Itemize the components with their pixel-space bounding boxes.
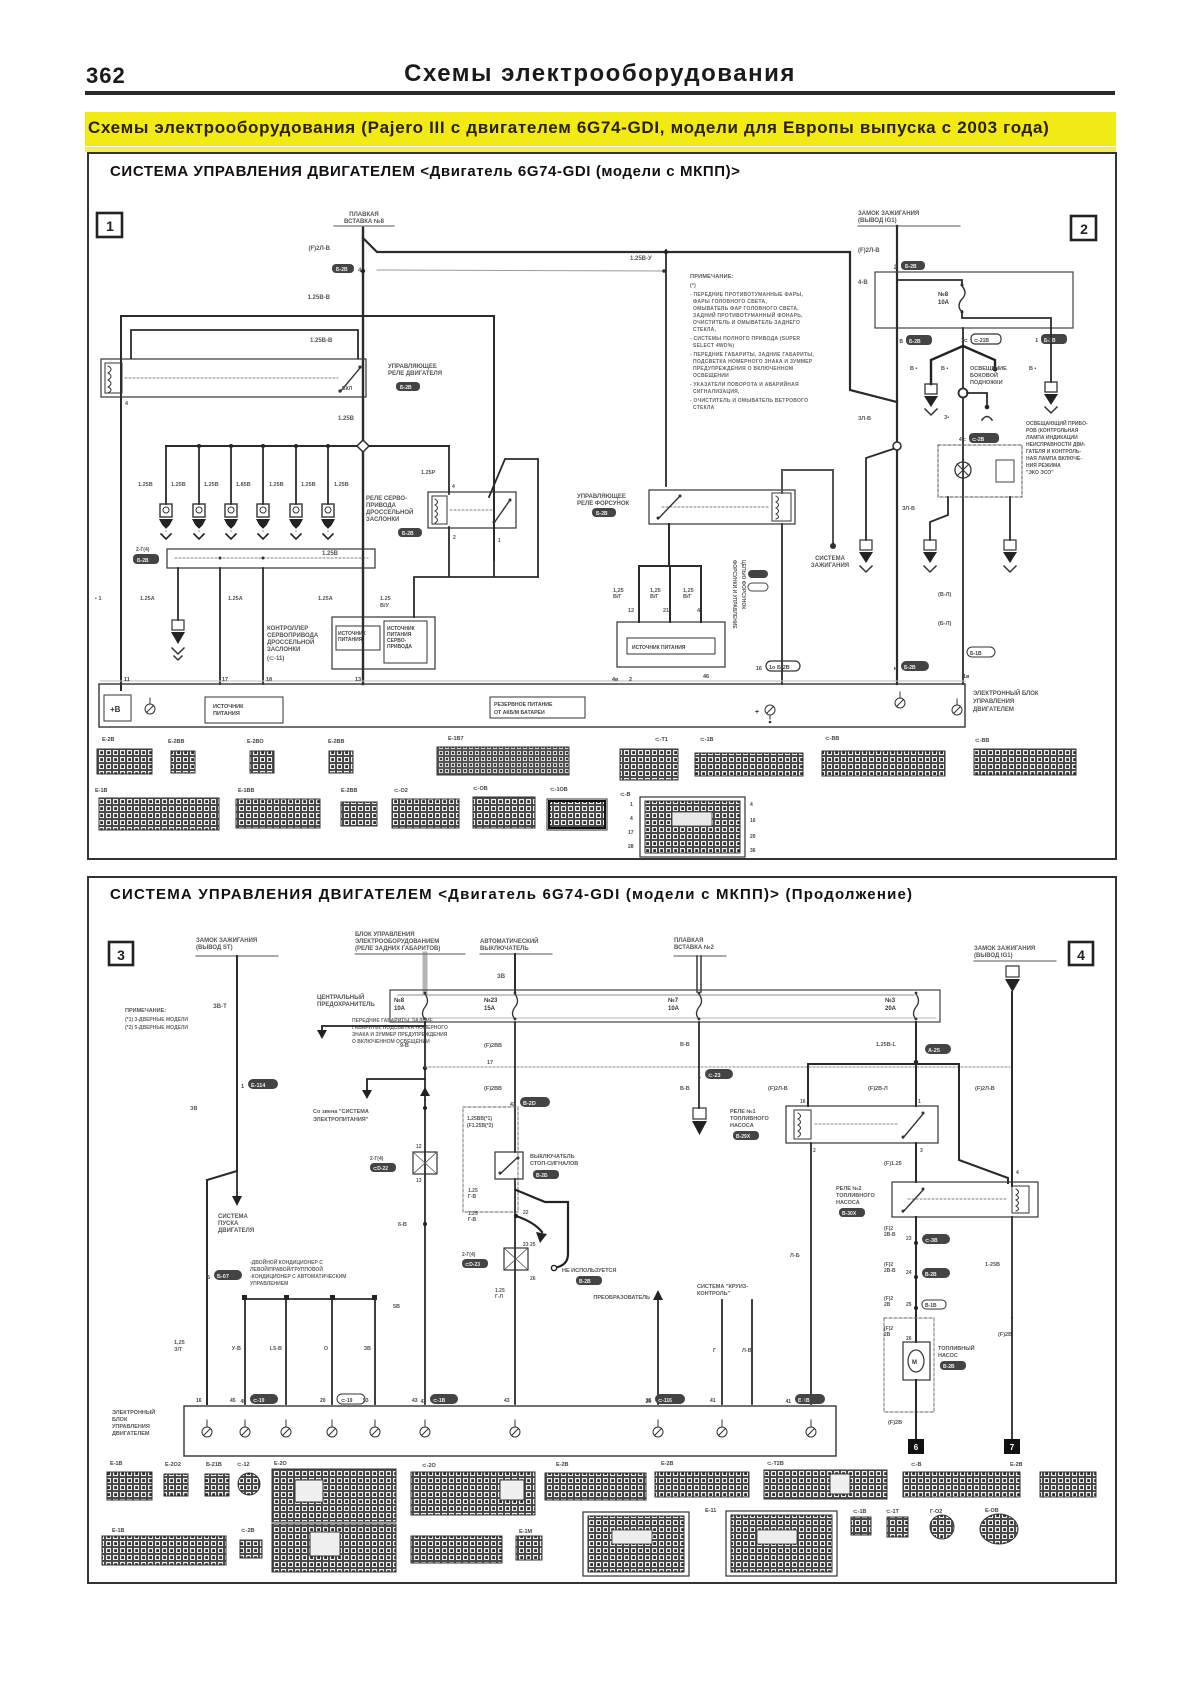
svg-text:3: 3: [920, 1148, 923, 1154]
svg-text:ВСТАВКА №8: ВСТАВКА №8: [344, 218, 385, 225]
svg-text:10А: 10А: [668, 1006, 680, 1012]
svg-text:Е-2ВВ: Е-2ВВ: [341, 788, 358, 794]
svg-text:ЭЛЕКТРОННЫЙ: ЭЛЕКТРОННЫЙ: [112, 1408, 155, 1416]
wire: servo feed into controller: [414, 527, 538, 617]
svg-text:1.25В-В: 1.25В-В: [308, 295, 331, 301]
fuse No.23 15A: [484, 992, 518, 1021]
svg-text:ПОДНОЖКИ: ПОДНОЖКИ: [970, 380, 1003, 386]
svg-text:№3: №3: [885, 997, 896, 1004]
branch arrow 2 from fuse8 drop: [362, 1079, 425, 1099]
throttle servo relay label: [366, 496, 413, 523]
svg-text:1.25В-В: 1.25В-В: [310, 338, 333, 344]
ECM pin numbers: [124, 674, 970, 683]
svg-text:17: 17: [487, 1060, 493, 1066]
svg-text:1о Б-2В: 1о Б-2В: [769, 665, 790, 671]
svg-text:- ПЕРЕДНИЕ ПРОТИВОТУМАННЫЕ ФАР: - ПЕРЕДНИЕ ПРОТИВОТУМАННЫЕ ФАРЫ,: [690, 292, 803, 298]
big ECM connector C-118: [628, 797, 756, 857]
svg-text:4: 4: [1016, 1170, 1019, 1176]
svg-text:ПОДСВЕТКА НОМЕРНОГО ЗНАКА И ЗУ: ПОДСВЕТКА НОМЕРНОГО ЗНАКА И ЗУММЕР: [693, 359, 813, 365]
wire: branch to coil ground: [866, 449, 893, 540]
svg-text:Б-2В: Б-2В: [905, 264, 917, 270]
junction dots on fuse8 branch: [423, 1106, 427, 1226]
connector oval under servo relay label: [398, 528, 422, 537]
svg-text:1: 1: [106, 218, 114, 234]
wire label 1.25 3/T: [174, 1340, 185, 1353]
header rule: [85, 91, 1115, 95]
injector control relay label: [577, 494, 630, 507]
svg-text:ГАТЕЛЯ И КОНТРОЛЬ-: ГАТЕЛЯ И КОНТРОЛЬ-: [1026, 449, 1081, 455]
svg-text:Б-2В: Б-2В: [904, 665, 916, 671]
central fuse box label: [317, 993, 375, 1008]
svg-text:46: 46: [703, 674, 709, 680]
svg-text:⊂-О2: ⊂-О2: [394, 788, 408, 794]
fuel pump: [903, 1342, 930, 1380]
ECM pin numbers top: [196, 1398, 806, 1404]
svg-text:Е-2ВО: Е-2ВО: [247, 739, 264, 745]
svg-text:⊂-Т2В: ⊂-Т2В: [767, 1461, 784, 1467]
svg-text:2-Г(4): 2-Г(4): [370, 1156, 384, 1162]
svg-text:⊂-ЗВ: ⊂-ЗВ: [925, 1238, 938, 1244]
svg-text:1-25В: 1-25В: [985, 1262, 1000, 1268]
svg-text:ЗНАКА И ЗУММЕР ПРЕДУПРЕЖДЕНИЯ: ЗНАКА И ЗУММЕР ПРЕДУПРЕЖДЕНИЯ: [352, 1032, 448, 1038]
wire: inner bridge over engine relay: [131, 330, 358, 358]
svg-text:1.25В: 1.25В: [338, 416, 355, 422]
svg-text:(F)2В: (F)2В: [888, 1420, 902, 1426]
svg-text:ФАРЫ ГОЛОВНОГО СВЕТА,: ФАРЫ ГОЛОВНОГО СВЕТА,: [693, 299, 767, 305]
svg-text:6-В: 6-В: [398, 1222, 407, 1228]
wire: fuse8 branch continues to ECM: [424, 1100, 426, 1404]
svg-text:20: 20: [750, 834, 756, 840]
svg-text:М: М: [912, 1360, 917, 1366]
svg-text:ЭЛЕКТРОПИТАНИЯ": ЭЛЕКТРОПИТАНИЯ": [313, 1117, 369, 1123]
svg-text:ЗВ: ЗВ: [497, 974, 506, 980]
svg-text:⊂-23: ⊂-23: [708, 1073, 721, 1079]
svg-text:Е-2ВВ: Е-2ВВ: [168, 739, 185, 745]
svg-text:Е-2О: Е-2О: [274, 1461, 288, 1467]
svg-text:Е-1В7: Е-1В7: [448, 736, 464, 742]
svg-text:В-1В: В-1В: [925, 1303, 937, 1309]
svg-text:ДРОССЕЛЬНОЙ: ДРОССЕЛЬНОЙ: [366, 508, 413, 516]
svg-text:ЦЕНТРАЛЬНЫЙ: ЦЕНТРАЛЬНЫЙ: [317, 993, 364, 1001]
svg-text:№8: №8: [394, 997, 405, 1004]
svg-text:В/У: В/У: [380, 603, 390, 609]
injector ground bus: [166, 445, 449, 447]
svg-text:2-Г(4): 2-Г(4): [136, 547, 150, 553]
connector oval B-20: [510, 1097, 550, 1108]
svg-text:25: 25: [530, 1242, 536, 1248]
svg-text:"ЭКО ЭСО": "ЭКО ЭСО": [1026, 470, 1054, 476]
svg-text:1.25В: 1.25В: [322, 551, 339, 557]
dotted option line: [425, 1066, 1010, 1068]
svg-text:Б-21В: Б-21В: [206, 1462, 222, 1468]
sheet marker 1: [97, 213, 122, 237]
svg-text:12: 12: [416, 1144, 422, 1150]
svg-text:13: 13: [355, 677, 361, 683]
svg-text:ПРИМЕЧАНИЕ:: ПРИМЕЧАНИЕ:: [125, 1008, 166, 1014]
wire: relay1 coil to ECM: [810, 1143, 812, 1404]
running board lamp label: [970, 366, 1007, 386]
ECM backup power box: [490, 697, 585, 718]
svg-text:ПИТАНИЯ: ПИТАНИЯ: [338, 637, 363, 643]
wire: lamp node branch with open end: [967, 393, 992, 420]
svg-text:23: 23: [906, 1236, 912, 1242]
svg-text:ПРИВОДА: ПРИВОДА: [366, 503, 397, 509]
svg-text:41: 41: [800, 1398, 806, 1404]
injector drop 4: [256, 446, 270, 539]
svg-text:В/Г: В/Г: [650, 594, 660, 600]
svg-text:ОТ АКБ/М БАТАРЕИ: ОТ АКБ/М БАТАРЕИ: [494, 710, 545, 716]
ac signal bus: [242, 1295, 377, 1300]
injector control relay: [649, 490, 795, 524]
svg-text:ЗАСЛОНКИ: ЗАСЛОНКИ: [366, 517, 399, 523]
svg-text:№23: №23: [484, 997, 498, 1004]
svg-text:20: 20: [320, 1398, 326, 1404]
svg-text:16: 16: [800, 1099, 806, 1105]
svg-text:В-В: В-В: [680, 1042, 690, 1048]
svg-text:Е-ОВ: Е-ОВ: [985, 1508, 999, 1514]
fusible link No.2 label: [674, 938, 726, 956]
fuel pump relay 2 label: [836, 1186, 876, 1217]
svg-text:Е-2В: Е-2В: [102, 737, 115, 743]
svg-text:(⊂-11): (⊂-11): [267, 656, 284, 662]
svg-text:СТЕКЛА,: СТЕКЛА,: [693, 327, 717, 333]
wire: pump to ground square 6: [915, 1380, 917, 1439]
ac bus drop 1: [244, 1299, 246, 1404]
svg-text:Б-2В: Б-2В: [596, 511, 608, 517]
wire: main battery feed vertical: [362, 228, 364, 684]
svg-text:1.85В: 1.85В: [236, 482, 251, 488]
engine control relay label: [388, 364, 442, 377]
svg-text:⊂-21В: ⊂-21В: [974, 338, 989, 344]
svg-text:н: н: [894, 666, 897, 672]
svg-text:L5-В: L5-В: [270, 1346, 282, 1352]
connector row 1 blocks d2: [107, 1469, 1096, 1522]
connector oval C-2B under relay label: [396, 382, 420, 391]
svg-text:4: 4: [750, 802, 753, 808]
svg-text:УПРАВЛЕНИЕМ: УПРАВЛЕНИЕМ: [250, 1281, 288, 1287]
svg-text:КОНТРОЛЛЕР: КОНТРОЛЛЕР: [267, 626, 308, 632]
svg-text:СИСТЕМА УПРАВЛЕНИЯ ДВИГАТЕЛЕМ: СИСТЕМА УПРАВЛЕНИЯ ДВИГАТЕЛЕМ <Двигатель…: [110, 886, 913, 903]
svg-text:1: 1: [630, 802, 633, 808]
fuse No.8 10A: [394, 992, 428, 1021]
svg-text:ПРИВОДА: ПРИВОДА: [387, 644, 412, 650]
injectors side label (rotated): [731, 560, 746, 629]
svg-text:БЛОК УПРАВЛЕНИЯ: БЛОК УПРАВЛЕНИЯ: [355, 932, 415, 938]
svg-text:ЗВ: ЗВ: [190, 1106, 197, 1112]
svg-text:ДВИГАТЕЛЕМ: ДВИГАТЕЛЕМ: [112, 1431, 150, 1437]
svg-text:(ВЫВОД IG1): (ВЫВОД IG1): [858, 218, 897, 224]
svg-text:⊂-1В: ⊂-1В: [853, 1509, 866, 1515]
connector oval under injector relay label: [592, 508, 616, 517]
svg-text:В/Г: В/Г: [683, 594, 693, 600]
indicator cluster note text: [1026, 419, 1088, 476]
wire: faint second feed line: [377, 270, 663, 271]
junction circle on lamp wire: [959, 389, 968, 398]
svg-text:У-В: У-В: [232, 1346, 241, 1352]
svg-text:НАСОСА: НАСОСА: [730, 1123, 754, 1129]
not used branch with open end: [516, 1190, 568, 1271]
note block 3dr/5dr: [125, 1008, 188, 1031]
wire label 1.25 G-L: [495, 1288, 505, 1300]
svg-text:45: 45: [230, 1398, 236, 1404]
svg-text:РЕЛЕ СЕРВО-: РЕЛЕ СЕРВО-: [366, 496, 407, 502]
lamp unit dashed box: [938, 445, 1022, 497]
svg-text:1.25В: 1.25В: [334, 482, 349, 488]
stop lamp switch feed: fuse 23 drop: [514, 1022, 516, 1152]
svg-text:(F)2В: (F)2В: [998, 1332, 1012, 1338]
wire: link box drop 2 to ECM: [219, 568, 221, 684]
wire labels on fuse8 drop: [400, 1043, 502, 1092]
svg-text:(F)2Л-В: (F)2Л-В: [308, 246, 330, 252]
svg-text:УПРАВЛЯЮЩЕЕ: УПРАВЛЯЮЩЕЕ: [388, 364, 437, 370]
svg-text:ОЧИСТИТЕЛЬ И ОМЫВАТЕЛЬ ЗАДНЕГО: ОЧИСТИТЕЛЬ И ОМЫВАТЕЛЬ ЗАДНЕГО: [693, 320, 800, 326]
svg-text:18: 18: [266, 677, 272, 683]
svg-text:(*1) 3-ДВЕРНЫЕ МОДЕЛИ: (*1) 3-ДВЕРНЫЕ МОДЕЛИ: [125, 1017, 188, 1023]
throttle controller box: [332, 617, 435, 669]
ground: left running board: [924, 384, 938, 415]
svg-text:Г-О2: Г-О2: [930, 1509, 942, 1515]
svg-text:Е-2В: Е-2В: [556, 1462, 569, 1468]
svg-text:БОКОВОЙ: БОКОВОЙ: [970, 371, 998, 379]
svg-text:Е-2В: Е-2В: [1010, 1462, 1023, 1468]
svg-text:В/Г: В/Г: [613, 594, 623, 600]
svg-text:В: В: [899, 339, 903, 345]
stop lamp switch: [495, 1152, 523, 1179]
fuel pump relay 2: [892, 1182, 1038, 1217]
svg-text:21: 21: [663, 608, 669, 614]
svg-text:(F)2ВВ: (F)2ВВ: [484, 1086, 502, 1092]
wire: relay1 switch to relay2: [915, 1143, 917, 1182]
svg-text:ИСТОЧНИК: ИСТОЧНИК: [213, 704, 244, 710]
svg-text:Б-2В: Б-2В: [137, 558, 149, 564]
svg-text:⊂D-23: ⊂D-23: [465, 1262, 480, 1268]
svg-text:10А: 10А: [938, 300, 950, 306]
throttle servo relay: [428, 492, 516, 528]
svg-text:Е-2О2: Е-2О2: [165, 1462, 181, 1468]
svg-text:(ВЫВОД ST): (ВЫВОД ST): [196, 945, 233, 951]
svg-text:ЗЛ-В: ЗЛ-В: [858, 416, 871, 422]
svg-text:(F)2Л-В: (F)2Л-В: [858, 248, 880, 254]
svg-text:SELECT 4WD%): SELECT 4WD%): [693, 343, 734, 349]
connector oval on starter run: [207, 1270, 242, 1281]
svg-text:ЗАМОК ЗАЖИГАНИЯ: ЗАМОК ЗАЖИГАНИЯ: [196, 938, 257, 944]
svg-text:ЗВ-Т: ЗВ-Т: [213, 1004, 227, 1010]
svg-text:З/Т: З/Т: [174, 1347, 183, 1353]
svg-text:Б-2В: Б-2В: [336, 267, 348, 273]
wire: fuse 8 output down: [424, 1022, 426, 1100]
svg-text:ВСТАВКА №2: ВСТАВКА №2: [674, 944, 715, 951]
throttle controller link box: [167, 549, 375, 568]
svg-text:2-Г(4): 2-Г(4): [462, 1252, 476, 1258]
connector E-28 on main feed: [332, 264, 362, 274]
side oval connectors: [748, 570, 768, 591]
distribution wire labels: [768, 1086, 995, 1092]
svg-text:В ▪: В ▪: [910, 366, 918, 372]
svg-text:В-В: В-В: [680, 1086, 690, 1092]
svg-text:Е-1ВВ: Е-1ВВ: [238, 788, 255, 794]
junction square 6: [908, 1439, 924, 1454]
svg-text:Е-1В: Е-1В: [110, 1461, 123, 1467]
wire: cruise feed 2: [751, 1300, 753, 1404]
svg-text:Л-В: Л-В: [742, 1348, 752, 1354]
option dashed box: [463, 1107, 518, 1212]
connector ovals above ECM right: [894, 647, 995, 672]
svg-text:АВТОМАТИЧЕСКИЙ: АВТОМАТИЧЕСКИЙ: [480, 937, 538, 945]
cruise control label: [697, 1284, 748, 1297]
svg-text:Со звена "СИСТЕМА: Со звена "СИСТЕМА: [313, 1109, 369, 1115]
svg-text:1.25А: 1.25А: [318, 596, 333, 602]
wire: servo relay switch up feed: [489, 459, 538, 577]
sheet marker 2: [1071, 216, 1096, 240]
svg-text:О: О: [324, 1346, 329, 1352]
svg-text:КОНТРОЛЬ": КОНТРОЛЬ": [697, 1291, 731, 1297]
svg-text:ЗАСЛОНКИ: ЗАСЛОНКИ: [267, 647, 300, 653]
svg-text:4⊂: 4⊂: [959, 437, 966, 443]
ac bus drop 4: [374, 1299, 376, 1404]
svg-text:СИГНАЛИЗАЦИЯ,: СИГНАЛИЗАЦИЯ,: [693, 389, 740, 395]
svg-text:16: 16: [196, 1398, 202, 1404]
svg-text:12: 12: [628, 608, 634, 614]
ignition switch ST label: [196, 938, 278, 956]
svg-text:ВЫКЛЮЧАТЕЛЬ: ВЫКЛЮЧАТЕЛЬ: [530, 1154, 575, 1160]
svg-text:⊂-2О: ⊂-2О: [422, 1463, 436, 1469]
svg-text:45: 45: [240, 1399, 246, 1405]
svg-text:ЗАМОК ЗАЖИГАНИЯ: ЗАМОК ЗАЖИГАНИЯ: [858, 211, 919, 217]
wire: fuse 3 output: [915, 1022, 917, 1106]
fuel pump dashed box: [884, 1318, 934, 1412]
ECM label right: [973, 689, 1039, 713]
svg-text:1: 1: [498, 538, 501, 544]
svg-text:ДВИГАТЕЛЕМ: ДВИГАТЕЛЕМ: [973, 707, 1014, 713]
yellow highlight underline strip: [85, 147, 1116, 152]
wire: breaker feed into fuse box: [514, 954, 516, 992]
ac drop labels: [232, 1346, 371, 1352]
ac bus drop 2: [285, 1299, 287, 1404]
svg-text:6: 6: [914, 1443, 919, 1452]
svg-text:14: 14: [272, 1398, 278, 1404]
svg-text:26: 26: [530, 1276, 536, 1282]
fuse 7 drop wire: [698, 1022, 700, 1108]
yellow highlighted subtitle: [85, 112, 1116, 146]
ECM long bar: [100, 680, 965, 682]
resistor marks on pump wire: [884, 1226, 896, 1338]
svg-text:⊂-ВВ: ⊂-ВВ: [825, 736, 839, 742]
ECM power source box: [205, 697, 283, 723]
svg-text:ПИТАНИЯ: ПИТАНИЯ: [213, 711, 240, 717]
connector row 2 labels: [95, 786, 630, 798]
svg-text:ЗАМОК ЗАЖИГАНИЯ: ЗАМОК ЗАЖИГАНИЯ: [974, 946, 1035, 952]
ignition system label: [811, 556, 849, 569]
ac note text: [250, 1258, 346, 1287]
fuel pump relay 1: [786, 1106, 938, 1143]
svg-text:1.25А: 1.25А: [228, 596, 243, 602]
ECM +B cell left: [104, 695, 131, 721]
svg-text:⊂-19: ⊂-19: [253, 1398, 265, 1404]
wire: ignition feed down: [896, 226, 898, 684]
svg-text:СТЕКЛА: СТЕКЛА: [693, 405, 715, 411]
svg-text:⊂-1Т: ⊂-1Т: [886, 1509, 899, 1515]
svg-text:43: 43: [504, 1398, 510, 1404]
svg-text:Г-В: Г-В: [468, 1217, 476, 1223]
svg-text:ОСВЕЩЕНИИ: ОСВЕЩЕНИИ: [693, 373, 729, 379]
power system source note: [313, 1109, 369, 1123]
circuit breaker label: [480, 937, 552, 954]
svg-text:З▪: З▪: [944, 415, 949, 421]
svg-text:РЕЛЕ ДВИГАТЕЛЯ: РЕЛЕ ДВИГАТЕЛЯ: [388, 371, 442, 377]
svg-text:(F)2Л-В: (F)2Л-В: [768, 1086, 788, 1092]
svg-text:В-2В: В-2В: [943, 1364, 955, 1370]
svg-text:⊂-ВВ: ⊂-ВВ: [975, 738, 989, 744]
svg-text:⊂-1В: ⊂-1В: [700, 737, 713, 743]
svg-text:(*): (*): [690, 283, 696, 289]
svg-text:+: +: [755, 709, 759, 716]
connector row 2 blocks d2: [102, 1511, 1018, 1576]
inline joint box D-22: [370, 1144, 437, 1184]
engine start system label: [218, 1214, 254, 1234]
svg-text:В-2D: В-2D: [523, 1101, 536, 1107]
svg-text:ЗАДНИЙ ПРОТИВОТУМАННЫЙ ФОНАРЬ,: ЗАДНИЙ ПРОТИВОТУМАННЫЙ ФОНАРЬ,: [693, 311, 803, 319]
svg-text:ЛЕВОЙ/ПРАВОЙ/ГРУППОВОЙ: ЛЕВОЙ/ПРАВОЙ/ГРУППОВОЙ: [250, 1265, 323, 1273]
frame of diagram 1: [88, 153, 1116, 859]
svg-text:- ПЕРЕДНИЕ ГАБАРИТЫ, ЗАДНИЕ ГА: - ПЕРЕДНИЕ ГАБАРИТЫ, ЗАДНИЕ ГАБАРИТЫ,: [690, 352, 814, 358]
svg-text:Е-2ВВ: Е-2ВВ: [328, 739, 345, 745]
wire: fuse output main drop: [962, 328, 964, 684]
wire: cruise feed 1: [721, 1300, 723, 1404]
svg-text:43: 43: [420, 1399, 426, 1405]
wire: inside fuse box jog: [898, 280, 1051, 328]
svg-text:(РЕЛЕ ЗАДНИХ ГАБАРИТОВ): (РЕЛЕ ЗАДНИХ ГАБАРИТОВ): [355, 946, 440, 952]
svg-text:⊂-12: ⊂-12: [237, 1462, 250, 1468]
svg-text:Б-2В: Б-2В: [1044, 338, 1056, 344]
svg-text:ЦЕПЬЮ ФОРСУНОК: ЦЕПЬЮ ФОРСУНОК: [740, 560, 746, 610]
fuel pump label: [938, 1344, 975, 1370]
svg-text:ПРИМЕЧАНИЕ:: ПРИМЕЧАНИЕ:: [690, 274, 734, 280]
sheet marker 3: [109, 942, 133, 965]
svg-text:11: 11: [124, 677, 130, 683]
connector row 2 blocks: [99, 797, 607, 830]
fusible link No.8 label: [334, 212, 394, 226]
svg-text:В-2Б: В-2Б: [536, 1173, 548, 1179]
svg-text:ЭЛЕКТРООБОРУДОВАНИЕМ: ЭЛЕКТРООБОРУДОВАНИЕМ: [355, 939, 439, 945]
ECM +grounding symbol: [755, 705, 775, 723]
svg-text:Г-В: Г-В: [468, 1194, 476, 1200]
svg-text:- УКАЗАТЕЛИ ПОВОРОТА И АВАРИЙН: - УКАЗАТЕЛИ ПОВОРОТА И АВАРИЙНАЯ: [690, 380, 799, 388]
svg-text:А-25: А-25: [928, 1048, 940, 1054]
ignition switch IG1 label: [858, 211, 960, 226]
svg-text:О ВКЛЮЧЕННОМ ОСВЕЩЕНИИ: О ВКЛЮЧЕННОМ ОСВЕЩЕНИИ: [352, 1039, 430, 1045]
svg-text:2: 2: [453, 535, 456, 541]
svg-text:1,25: 1,25: [174, 1340, 185, 1346]
etacs unit label: [355, 932, 465, 954]
svg-text:ЗЛ-В: ЗЛ-В: [902, 506, 915, 512]
svg-text:ФОРСУНКИ И УПРАВЛЕНИЕ: ФОРСУНКИ И УПРАВЛЕНИЕ: [731, 560, 737, 629]
fuse No.3 20A: [885, 992, 919, 1021]
connector oval on coil wire: [756, 661, 800, 672]
svg-text:НАЯ ЛАМПА ВКЛЮЧЕ-: НАЯ ЛАМПА ВКЛЮЧЕ-: [1026, 456, 1082, 462]
svg-text:Е-2В: Е-2В: [661, 1461, 674, 1467]
wire: lamp box pins to grounds: [930, 497, 1010, 540]
svg-text:⊂-ОВ: ⊂-ОВ: [473, 786, 488, 792]
connector row 1 labels d2: [110, 1461, 1023, 1469]
svg-text:ТОПЛИВНОГО: ТОПЛИВНОГО: [836, 1193, 876, 1199]
svg-text:ПУСКА: ПУСКА: [218, 1221, 239, 1227]
svg-text:5В: 5В: [393, 1304, 400, 1310]
svg-text:2В-В: 2В-В: [884, 1268, 896, 1274]
junction dot: [423, 1066, 427, 1070]
svg-text:Е-1В: Е-1В: [112, 1528, 125, 1534]
svg-text:2В-В: 2В-В: [884, 1232, 896, 1238]
svg-text:1.25ВВ(*1): 1.25ВВ(*1): [467, 1116, 492, 1122]
